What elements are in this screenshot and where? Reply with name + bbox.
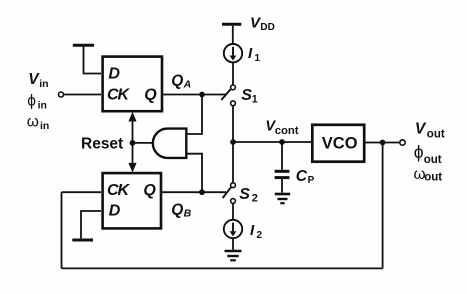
wire feedback bottom xyxy=(62,267,383,269)
svg-text:VCO: VCO xyxy=(322,135,358,153)
svg-text:ϕ: ϕ xyxy=(414,142,424,162)
svg-text:Q: Q xyxy=(171,72,183,89)
node Q_B junction xyxy=(199,189,205,195)
capacitor CP xyxy=(281,142,283,170)
svg-text:Q: Q xyxy=(171,202,183,219)
svg-text:out: out xyxy=(424,171,442,183)
svg-text:CK: CK xyxy=(107,87,131,104)
wire Q_A junction to AND gate top input xyxy=(186,95,202,135)
ground (below I2) xyxy=(225,250,242,253)
svg-text:A: A xyxy=(183,78,192,90)
wire AND gate bottom input to Q_B junction xyxy=(186,154,202,193)
wire node Vcont to VCO xyxy=(233,141,311,143)
ground (below CP) xyxy=(275,193,290,196)
svg-text:1: 1 xyxy=(255,53,261,64)
wire Q_A to S1 lever xyxy=(202,94,226,96)
svg-text:V: V xyxy=(415,120,427,137)
svg-text:CK: CK xyxy=(107,182,131,199)
logic-1 tie bar (top FF D input) xyxy=(73,44,94,47)
wire Q_A xyxy=(163,94,203,96)
wire reset to AND gate output xyxy=(133,142,154,144)
wire VDD to I1 xyxy=(232,26,234,44)
wire I1 to S1 xyxy=(232,62,234,85)
output terminal xyxy=(400,140,405,145)
wire feedback up left xyxy=(61,192,63,268)
wire node to S2 xyxy=(232,142,234,183)
wire feedback to CK2 xyxy=(62,191,102,193)
wire feedback down xyxy=(382,143,384,269)
svg-text:ϕ: ϕ xyxy=(27,93,36,110)
wire S1 to node Vcont xyxy=(232,106,234,142)
wire I2 to ground xyxy=(232,238,234,250)
svg-text:in: in xyxy=(38,99,47,111)
svg-text:Q: Q xyxy=(144,87,157,104)
switch S1 xyxy=(221,89,230,100)
svg-text:I: I xyxy=(250,222,255,239)
svg-text:B: B xyxy=(184,208,192,220)
svg-text:in: in xyxy=(39,78,48,90)
current source I1 xyxy=(224,44,242,62)
current source I2 xyxy=(224,220,242,238)
wire tie bar to D1 xyxy=(84,47,102,74)
svg-text:2: 2 xyxy=(257,230,263,241)
node reset junction xyxy=(130,140,136,146)
logic-1 tie bar (bottom FF D input) xyxy=(81,211,101,238)
svg-text:out: out xyxy=(424,154,442,166)
svg-text:D: D xyxy=(109,202,121,219)
node output junction xyxy=(380,140,386,146)
wire S2 to I2 xyxy=(232,203,234,219)
node Vcont junction xyxy=(230,139,236,145)
wire Q_B xyxy=(162,191,202,193)
D flip-flop FF1 xyxy=(103,57,162,112)
svg-text:DD: DD xyxy=(260,22,274,33)
svg-text:out: out xyxy=(427,129,445,141)
VCO block xyxy=(312,125,364,162)
wire VCO output xyxy=(366,142,400,144)
wire input to CK1 xyxy=(64,94,101,96)
node capacitor junction xyxy=(279,139,285,145)
svg-text:C: C xyxy=(296,168,308,185)
node Q_A junction xyxy=(199,92,205,98)
svg-text:Reset: Reset xyxy=(81,135,123,152)
VDD supply bar xyxy=(222,23,241,26)
svg-text:ω: ω xyxy=(27,113,39,130)
D flip-flop FF2 xyxy=(103,173,161,228)
switch S2 xyxy=(223,187,231,198)
svg-text:D: D xyxy=(108,66,120,83)
svg-text:P: P xyxy=(308,175,315,186)
svg-text:S: S xyxy=(239,186,250,203)
svg-text:in: in xyxy=(40,120,49,132)
AND gate U1 (facing left) xyxy=(153,129,186,158)
input terminal xyxy=(59,92,64,97)
svg-text:Q: Q xyxy=(143,182,156,199)
svg-text:cont: cont xyxy=(275,125,299,137)
svg-text:1: 1 xyxy=(252,94,258,106)
svg-text:I: I xyxy=(248,45,253,62)
svg-text:2: 2 xyxy=(252,193,258,205)
reset double arrow xyxy=(132,116,134,168)
wire Q_B to S2 lever xyxy=(202,191,226,193)
